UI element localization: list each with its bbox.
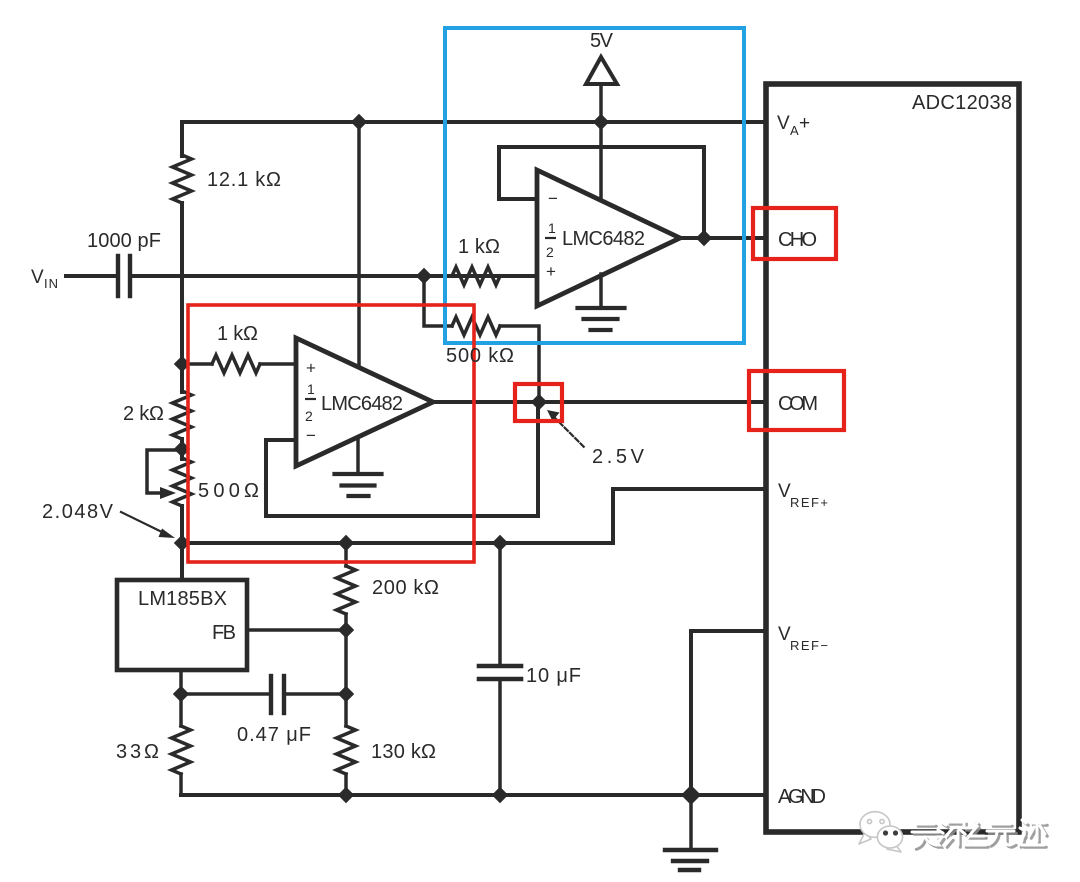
- svg-text:10 μF: 10 μF: [526, 665, 581, 687]
- svg-text:500 kΩ: 500 kΩ: [446, 345, 514, 367]
- svg-text:5V: 5V: [590, 30, 614, 52]
- node dot upper op-amp output: [696, 230, 712, 246]
- svg-text:−: −: [306, 426, 316, 445]
- svg-text:+: +: [546, 262, 556, 281]
- watermark wechat icon: [859, 812, 903, 852]
- wire VIN line: [66, 274, 115, 278]
- svg-text:500Ω: 500Ω: [198, 480, 259, 502]
- wire lower op-amp gnd stem: [356, 438, 360, 473]
- wire upper op-amp output to CHO pin: [680, 236, 766, 240]
- resistor R4 1 k (lower op-amp input): [182, 362, 212, 366]
- resistor R6 500 k: [452, 317, 500, 335]
- highlight blue box: [445, 28, 744, 343]
- node dot bottom rail 130k: [338, 787, 354, 803]
- svg-text:LMC6482: LMC6482: [562, 228, 645, 250]
- wire AGND ground stem: [689, 795, 693, 849]
- node dot 2.048V: [174, 535, 190, 551]
- potentiometer R3 500 ohm: [173, 458, 192, 506]
- node dot pot top: [174, 441, 190, 457]
- wire VIN line to op-amp: [133, 274, 537, 278]
- svg-text:AGND: AGND: [778, 786, 826, 808]
- svg-text:A: A: [790, 123, 799, 138]
- potentiometer wiper arrowhead: [160, 487, 176, 499]
- wire branch from VIN node down to 500k: [424, 276, 452, 326]
- wire upper op-amp V+ stem: [599, 122, 603, 200]
- node dot rail 10uF: [492, 535, 508, 551]
- svg-text:FB: FB: [212, 622, 236, 644]
- svg-text:2.5V: 2.5V: [592, 446, 645, 468]
- svg-text:ADC12038: ADC12038: [912, 92, 1012, 114]
- svg-text:LMC6482: LMC6482: [321, 393, 403, 415]
- highlight red box 2.5V node: [515, 384, 562, 421]
- capacitor C2 0.47 uF: [181, 692, 268, 696]
- resistor R7 200 k: [344, 543, 348, 566]
- voltage regulator U3 LM185BX body: [117, 580, 247, 670]
- svg-text:1: 1: [548, 220, 556, 236]
- resistor R2 2 k: [173, 391, 192, 439]
- svg-text:12.1 kΩ: 12.1 kΩ: [207, 169, 281, 191]
- node dot 0.47uF right: [338, 686, 354, 702]
- wire 5V stem: [599, 84, 603, 122]
- node dot VA+ rail / lower op-amp supply: [351, 114, 367, 130]
- node dot 2.5V COM: [531, 394, 547, 410]
- svg-text:V: V: [31, 267, 44, 288]
- wire upper op-amp feedback loop: [499, 147, 704, 238]
- wire bottom AGND rail: [181, 793, 766, 797]
- resistor R5 1 k (upper op-amp input): [452, 267, 500, 285]
- svg-text:0.47 μF: 0.47 μF: [237, 724, 311, 746]
- svg-text:130 kΩ: 130 kΩ: [371, 741, 436, 763]
- node dot FB: [338, 622, 354, 638]
- svg-text:1 kΩ: 1 kΩ: [217, 323, 258, 345]
- potentiometer wiper wire: [147, 450, 182, 493]
- wire lower op-amp feedback loop: [266, 402, 538, 516]
- svg-text:LM185BX: LM185BX: [138, 588, 227, 610]
- highlight red box COM: [749, 371, 844, 430]
- wire 500k to 2.5V node: [500, 326, 539, 402]
- svg-text:2 kΩ: 2 kΩ: [123, 403, 164, 425]
- wire left vertical bus segments: [180, 122, 184, 156]
- wire LM185BX bottom pin: [179, 670, 183, 694]
- arrow 2.048V pointer: [121, 512, 164, 533]
- svg-text:V: V: [777, 113, 790, 134]
- ground below lower op-amp: [335, 474, 382, 496]
- resistor R8 33 ohm: [179, 694, 183, 726]
- node dot bottom rail VREF-: [681, 785, 701, 805]
- svg-text:+: +: [799, 113, 810, 134]
- power symbol 5V: [586, 57, 617, 84]
- svg-text:−: −: [548, 189, 558, 208]
- svg-text:1 kΩ: 1 kΩ: [458, 236, 500, 258]
- svg-text:1000 pF: 1000 pF: [87, 230, 161, 252]
- wire pot to 2.048V node: [180, 506, 184, 543]
- svg-text:2: 2: [546, 244, 554, 260]
- wire 2.048V rail to VREF+: [182, 489, 766, 543]
- node dot rail 200k: [338, 535, 354, 551]
- op-amp U1a upper LMC6482 triangle: [537, 170, 680, 306]
- svg-text:33Ω: 33Ω: [116, 741, 159, 763]
- highlight red box CHO: [753, 208, 836, 259]
- wire upper op-amp gnd stem: [599, 274, 603, 307]
- svg-text:COM: COM: [778, 393, 818, 415]
- wire VREF- branch: [691, 631, 766, 795]
- wire FB node down: [344, 630, 348, 694]
- capacitor C3 10 uF: [498, 543, 502, 663]
- svg-text:2.048V: 2.048V: [42, 501, 114, 523]
- wire VA+ rail: [182, 120, 766, 124]
- wire FB pin: [247, 628, 346, 632]
- svg-text:1: 1: [307, 381, 315, 397]
- node dot below LM185BX: [173, 686, 189, 702]
- svg-text:200 kΩ: 200 kΩ: [372, 577, 439, 599]
- highlight red box lower op-amp: [188, 305, 474, 562]
- ground at AGND: [665, 850, 716, 870]
- svg-text:CHO: CHO: [778, 229, 817, 251]
- node dot bottom rail 10uF: [492, 787, 508, 803]
- svg-text:+: +: [306, 359, 316, 378]
- ground below upper op-amp: [578, 308, 625, 330]
- op-amp U1b lower LMC6482 triangle: [296, 338, 433, 466]
- IC U2 ADC12038 body: [766, 84, 1019, 832]
- svg-text:REF−: REF−: [790, 638, 828, 653]
- svg-text:2: 2: [305, 408, 313, 424]
- node dot VA+ rail / 5V: [593, 114, 609, 130]
- node dot VIN branch: [416, 268, 432, 284]
- svg-text:IN: IN: [44, 276, 58, 291]
- watermark text yunshenzhiwuji: [912, 820, 1047, 849]
- arrow 2.5V pointer: [554, 417, 584, 447]
- wire lower op-amp V+ stem from rail: [357, 122, 361, 367]
- wire lower op-amp output to COM pin: [433, 400, 766, 404]
- node dot 1k lower input: [174, 356, 190, 372]
- resistor R1 12.1 k: [173, 155, 192, 203]
- resistor R9 130 k: [344, 694, 348, 726]
- capacitor C1 1000 pF: [118, 256, 130, 296]
- svg-text:REF+: REF+: [790, 495, 828, 510]
